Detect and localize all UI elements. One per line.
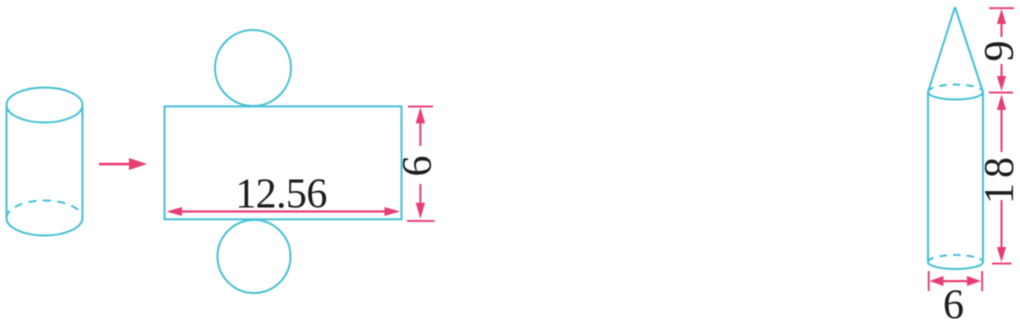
svg-text:6: 6	[943, 283, 964, 320]
cone left slant	[928, 7, 955, 92]
top ellipse	[7, 88, 83, 123]
bottom front arc	[7, 218, 83, 236]
svg-text:6: 6	[395, 156, 441, 177]
dimension 6 (height of rectangle, right side)	[407, 106, 435, 222]
cone base hidden arc (dashed)	[928, 85, 983, 92]
pencil bottom front arc	[928, 262, 983, 269]
pencil: cone tip	[928, 7, 983, 269]
dimension 18 (pencil cylinder height)	[992, 95, 1012, 265]
pencil bottom hidden arc (dashed)	[928, 255, 983, 262]
dimension 12.56 (width of rectangle)	[167, 207, 401, 216]
dimension 9 (cone height)	[989, 7, 1014, 93]
cone base front arc	[928, 92, 983, 100]
pencil cylinder left side	[927, 92, 929, 262]
cylinder (left solid figure)	[7, 88, 83, 236]
bottom hidden arc (dashed)	[7, 201, 83, 219]
circle (bottom base of net)	[218, 220, 291, 293]
rectangle (lateral surface of net)	[165, 106, 402, 219]
right side wire	[82, 105, 84, 218]
svg-text:12.56: 12.56	[235, 172, 327, 218]
svg-text:9: 9	[977, 41, 1020, 62]
arrow (unfold indicator)	[99, 158, 147, 170]
left side wire	[6, 105, 8, 218]
cone right slant	[955, 7, 983, 92]
dimension 6 (pencil diameter)	[928, 271, 983, 291]
pencil cylinder right side	[982, 92, 984, 262]
svg-text:18: 18	[977, 152, 1020, 204]
circle (top base of net)	[215, 30, 291, 106]
